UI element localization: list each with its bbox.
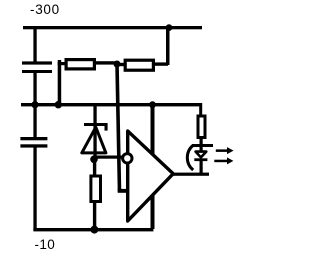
- net label -300: [30, 2, 60, 17]
- wire inverting input column (slanted): [115, 64, 121, 192]
- capacitor C1 top plate: [22, 61, 52, 64]
- optocoupler light arrow 2 head: [227, 157, 233, 164]
- resistor R4: [198, 116, 205, 138]
- node junction left rail: [31, 101, 38, 108]
- node junction top rail: [166, 24, 173, 31]
- wire left column bottom: [33, 147, 36, 231]
- LED D2 triangle: [196, 152, 207, 158]
- resistor R3: [91, 176, 101, 202]
- node junction diode anode: [90, 156, 98, 164]
- capacitor C1 bottom plate: [22, 70, 52, 73]
- wire non-inverting input stub: [118, 189, 130, 193]
- optocoupler light arrow 2 shaft: [214, 160, 228, 163]
- net label -10: [35, 237, 56, 252]
- wire diode top lead: [93, 105, 96, 124]
- wire R2 column to top rail: [166, 27, 170, 65]
- wire R4 bottom lead: [200, 137, 203, 145]
- wire R1 left vertical: [58, 60, 62, 105]
- node junction middle rail comparator: [149, 101, 156, 108]
- wire R2 right stub: [155, 62, 168, 65]
- wire output from comparator: [173, 173, 210, 176]
- wire LED cathode lead: [200, 161, 203, 173]
- node junction R1-R2: [114, 61, 121, 68]
- wire R1 right stub: [96, 61, 118, 64]
- op-amp U1 comparator triangle: [128, 131, 174, 221]
- wire R3 bottom lead: [93, 203, 96, 229]
- zener D1 cathode hook: [105, 123, 108, 131]
- wire left column lower: [33, 105, 36, 138]
- zener D1 cathode bar: [84, 123, 107, 126]
- wire bottom rail -10: [33, 228, 153, 231]
- wire input rail to comparator: [94, 156, 123, 159]
- wire R1 left stub: [58, 62, 66, 65]
- capacitor C2 top plate: [20, 137, 47, 140]
- wire R2 left stub: [117, 63, 125, 66]
- optocoupler U2 top bar: [192, 144, 213, 147]
- resistor R1: [66, 60, 94, 69]
- optocoupler light arrow 1 shaft: [216, 149, 229, 152]
- node junction bottom rail: [90, 226, 98, 234]
- wire diode middle lead: [93, 126, 96, 160]
- wire R3 top lead: [93, 159, 96, 175]
- wire left column upper: [33, 27, 36, 62]
- wire middle rail: [21, 103, 202, 106]
- wire top rail -300: [23, 26, 202, 29]
- wire LED anode lead: [200, 147, 203, 152]
- wire left column mid: [33, 73, 36, 106]
- wire middle rail right corner: [199, 103, 202, 116]
- resistor R2: [125, 60, 153, 70]
- optocoupler U2 body arc: [187, 145, 193, 170]
- zener D1 triangle: [82, 127, 106, 153]
- capacitor C2 bottom plate: [20, 144, 47, 147]
- wire comparator power column: [151, 105, 155, 229]
- node junction R1 lead: [55, 101, 62, 108]
- LED D2 cathode bar: [194, 158, 207, 161]
- optocoupler light arrow 1 head: [227, 147, 234, 154]
- op-amp U1 inverting bubble: [123, 154, 132, 163]
